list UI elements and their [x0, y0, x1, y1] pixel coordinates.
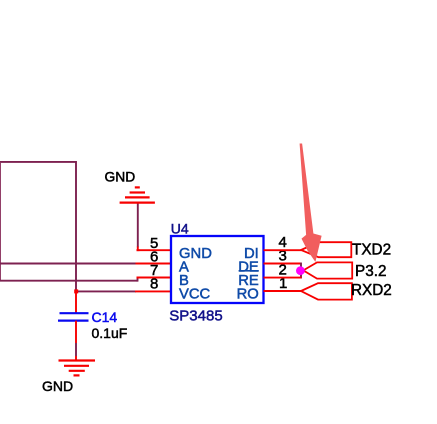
svg-text:C14: C14 — [92, 309, 118, 325]
wire pin7 net (B net) with jog — [0, 278, 172, 282]
svg-text:P3.2: P3.2 — [355, 263, 386, 280]
ground GND1 (inverted, above pin5) — [120, 187, 155, 202]
wire vertical jog pin3-pin2 — [300, 263, 302, 279]
svg-text:U4: U4 — [171, 220, 189, 236]
wire C14 bottom stem to GND2 — [75, 321, 77, 361]
wire pin3 horizontal — [264, 263, 302, 265]
wire pin5 horizontal (GND net) — [137, 249, 173, 251]
svg-text:TXD2: TXD2 — [352, 242, 391, 259]
node junction VCC at (76,291) — [74, 289, 78, 293]
wire red vertical from junction down to C14 — [75, 291, 77, 313]
svg-text:0.1uF: 0.1uF — [92, 325, 128, 341]
wire pin1 to RXD2 port — [264, 290, 302, 292]
wire vertical bus x76 down to pin8 junction — [75, 161, 77, 291]
svg-text:RXD2: RXD2 — [351, 282, 392, 299]
wire left-edge vertical — [0, 162, 1, 281]
svg-text:8: 8 — [150, 276, 158, 293]
svg-text:SP3485: SP3485 — [169, 307, 222, 324]
wire net-left-top horizontal — [0, 161, 76, 163]
port P3.2 shape — [303, 262, 352, 278]
wire GND1 stem vertical — [137, 203, 140, 250]
pin name RE with bar (pin 2) — [238, 270, 259, 289]
port TXD2 shape — [301, 242, 351, 257]
svg-text:GND: GND — [42, 378, 73, 394]
annotation arrow pointing at pin 2 — [300, 144, 322, 263]
ground GND2 (below C14) — [59, 361, 96, 376]
wire pin2 horizontal — [264, 277, 302, 279]
wire pin4 to TXD2 port — [264, 249, 302, 251]
svg-text:VCC: VCC — [179, 286, 211, 302]
node junction dot (magenta) on pin2/pin3 net — [296, 266, 305, 275]
wire pin6 horizontal (A net) — [0, 263, 172, 265]
capacitor C14 plates — [58, 313, 89, 320]
port RXD2 shape — [301, 283, 352, 299]
IC U4 SP3485 body — [171, 236, 264, 303]
svg-text:GND: GND — [105, 170, 136, 185]
svg-text:RO: RO — [237, 286, 259, 302]
wire pin8 horizontal (VCC net) — [76, 290, 172, 292]
